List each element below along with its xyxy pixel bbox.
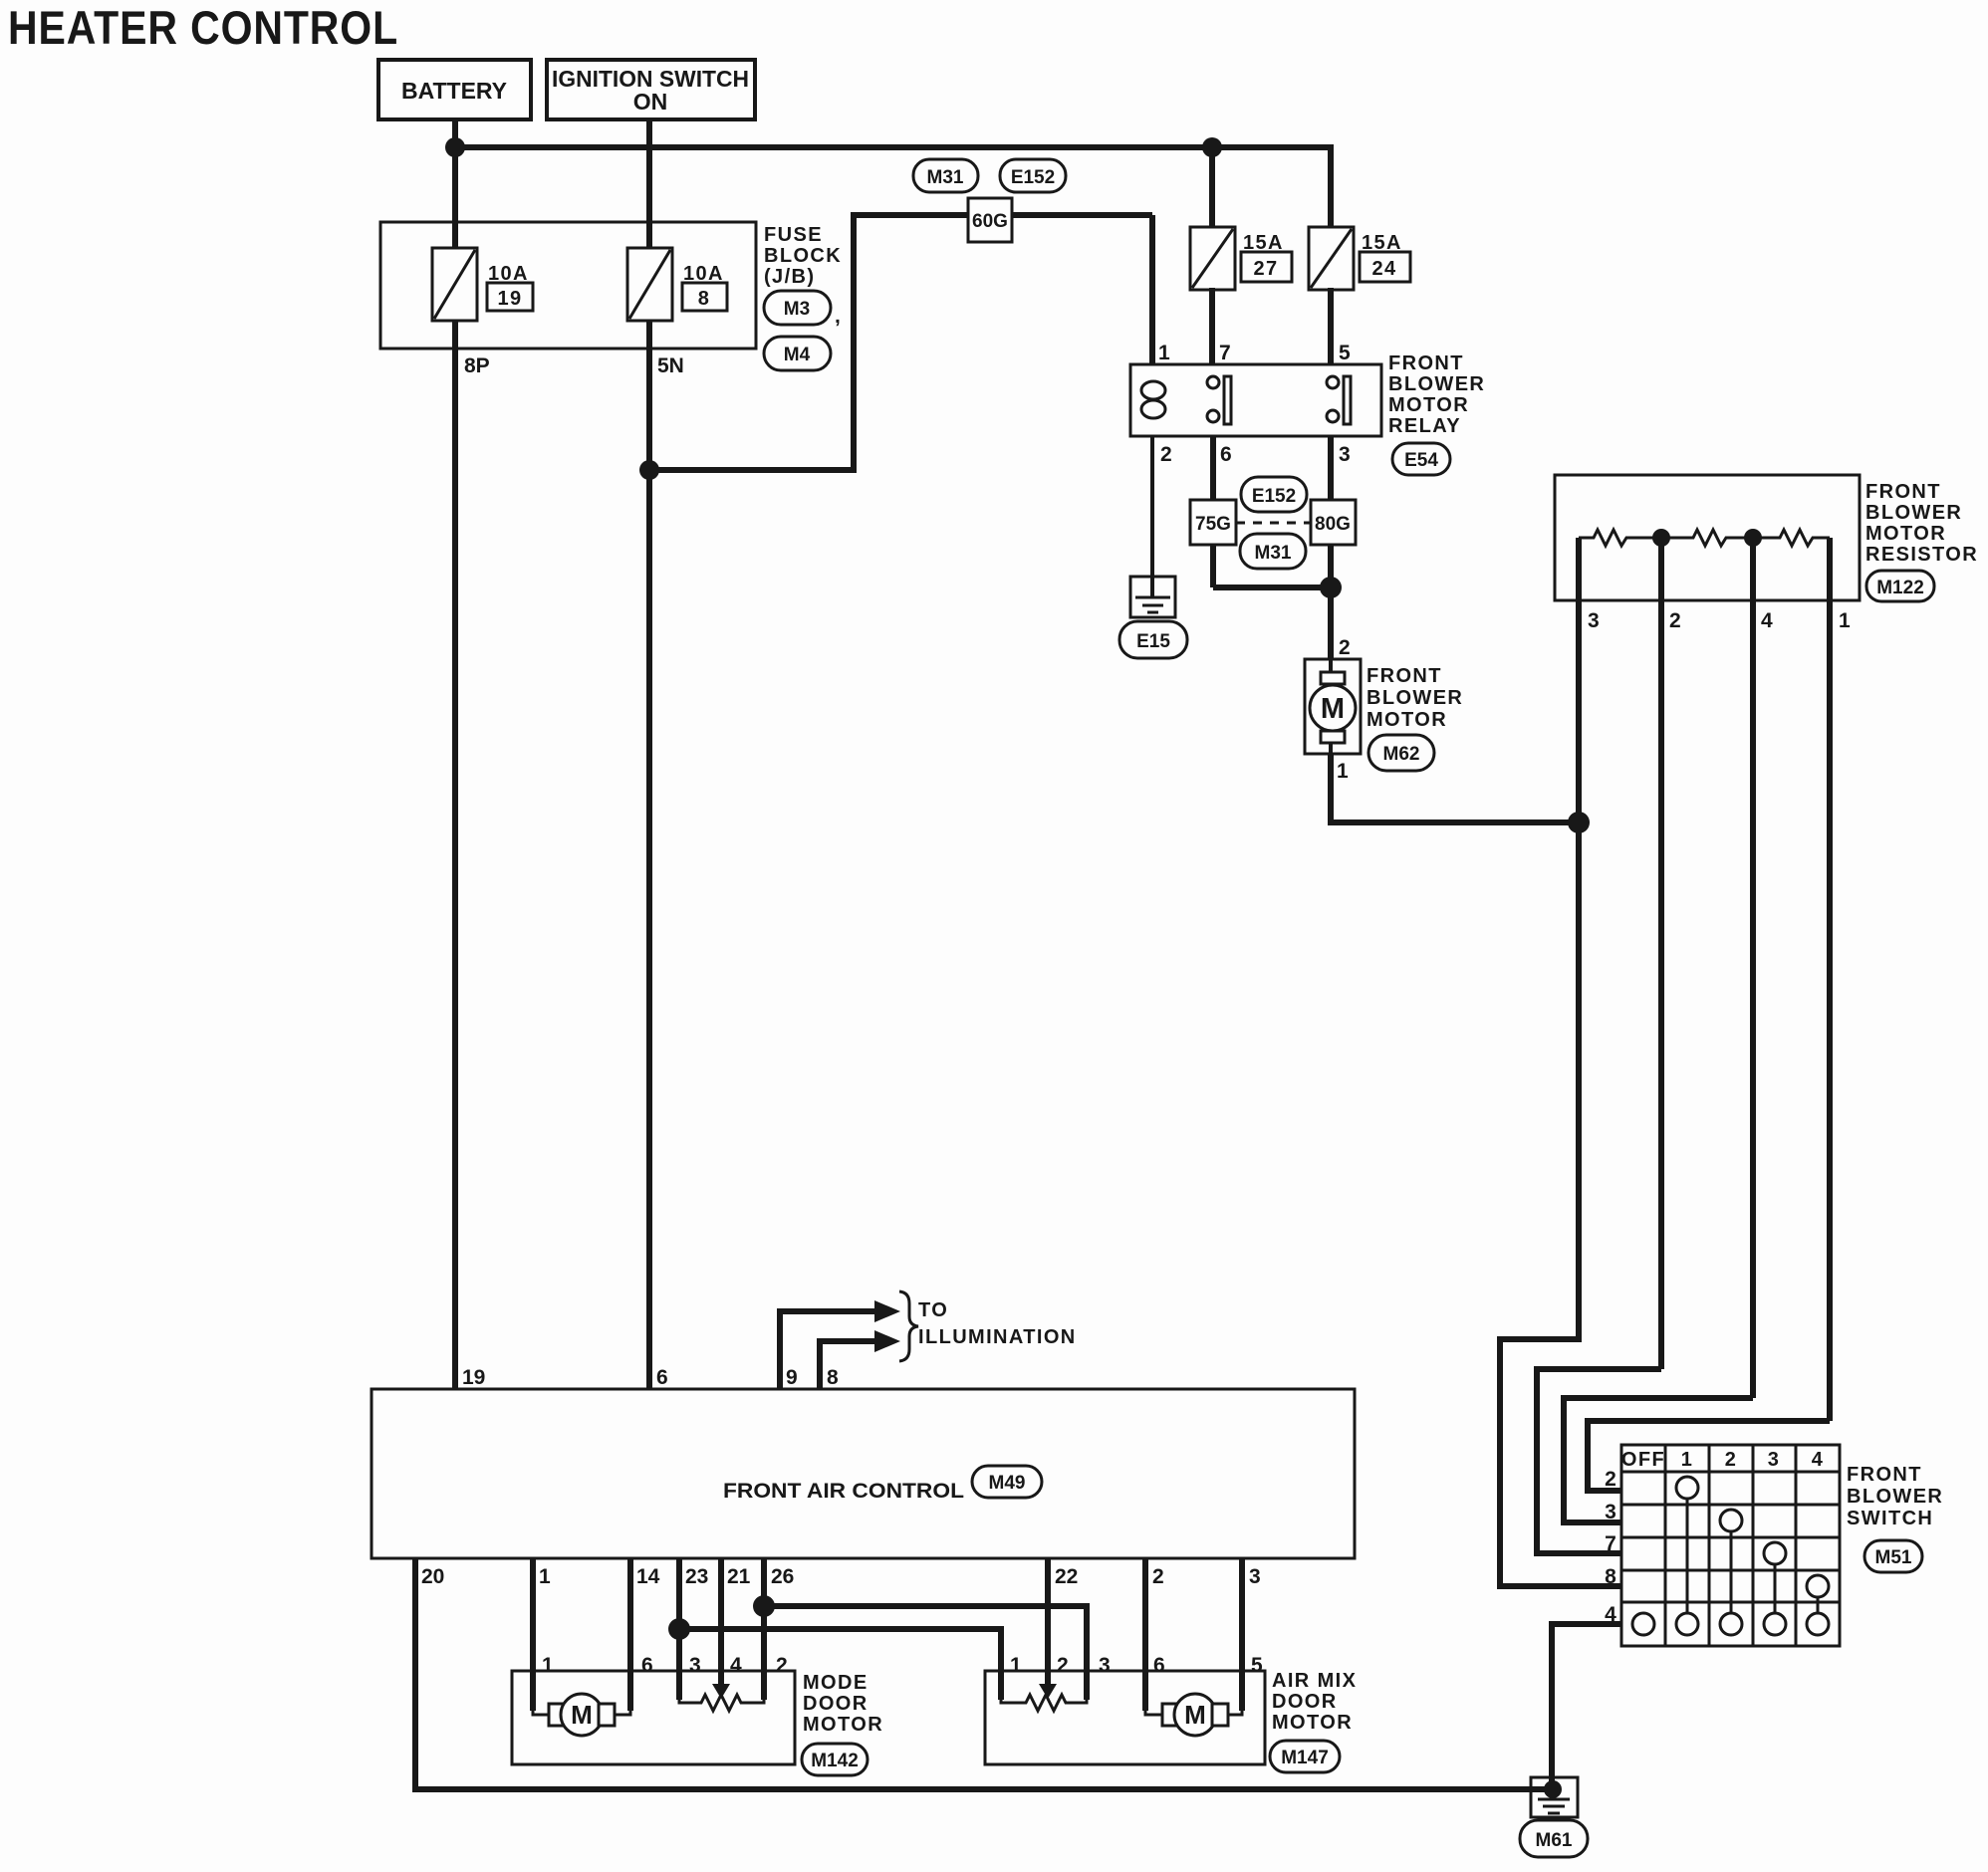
fuse block J/B box bbox=[380, 222, 756, 349]
svg-text:2: 2 bbox=[1669, 609, 1681, 632]
node junction 15A feed bbox=[1202, 137, 1222, 157]
svg-text:E15: E15 bbox=[1136, 631, 1170, 652]
svg-text:ON: ON bbox=[633, 89, 668, 115]
relay contact 5-3 bbox=[1327, 376, 1339, 388]
svg-text:M142: M142 bbox=[811, 1751, 859, 1771]
svg-text:RELAY: RELAY bbox=[1388, 415, 1461, 437]
svg-text:AIR MIX: AIR MIX bbox=[1272, 1670, 1357, 1692]
wire branch 23 to air mix pin1 bbox=[679, 1629, 1001, 1700]
wire blower motor pin1 out bbox=[1331, 754, 1579, 822]
svg-text:FRONT: FRONT bbox=[1388, 352, 1464, 374]
svg-text:4: 4 bbox=[1812, 1449, 1825, 1471]
connector E152 lower bbox=[1241, 477, 1307, 512]
connector M147 bbox=[1270, 1741, 1340, 1772]
svg-text:MOTOR: MOTOR bbox=[1388, 394, 1469, 416]
wire FAC pin9 to illumination bbox=[780, 1311, 876, 1389]
wire ignition drop 5N feed bbox=[646, 119, 652, 251]
node junction pin3/motor bbox=[1320, 577, 1342, 598]
svg-text:20: 20 bbox=[421, 1565, 444, 1588]
wire pin6 to pin3 link bbox=[1213, 585, 1331, 590]
connector E54 bbox=[1392, 443, 1450, 475]
svg-text:SWITCH: SWITCH bbox=[1847, 1508, 1933, 1529]
svg-text:,: , bbox=[835, 305, 841, 328]
svg-text:M4: M4 bbox=[784, 345, 811, 365]
svg-text:M31: M31 bbox=[1255, 543, 1292, 564]
wire FAC pin3 to air mix pin5 bbox=[1239, 1558, 1245, 1711]
wire switch pin4 to ground M61 bbox=[1552, 1624, 1621, 1782]
mode motor symbol bbox=[533, 1711, 549, 1715]
svg-text:2: 2 bbox=[1605, 1468, 1616, 1491]
wire resistor pin4 bbox=[1750, 538, 1756, 1398]
svg-text:6: 6 bbox=[641, 1654, 653, 1677]
svg-text:5: 5 bbox=[1251, 1654, 1263, 1677]
svg-text:MOTOR: MOTOR bbox=[803, 1714, 883, 1736]
svg-text:2: 2 bbox=[1339, 636, 1351, 659]
wire FAC pin23 to mode pin3 bbox=[676, 1558, 682, 1700]
ground E15 bbox=[1130, 577, 1175, 617]
svg-text:TO: TO bbox=[918, 1299, 948, 1321]
switch row4 contacts bbox=[1632, 1613, 1654, 1635]
connector M31 bbox=[913, 159, 978, 192]
svg-text:FRONT: FRONT bbox=[1367, 665, 1442, 687]
wire 60G bus to relay pin1 bbox=[851, 212, 1152, 218]
svg-text:27: 27 bbox=[1253, 258, 1278, 280]
connector M122 bbox=[1866, 571, 1934, 601]
svg-text:6: 6 bbox=[656, 1366, 668, 1389]
switch contact column 2 bbox=[1720, 1510, 1742, 1531]
svg-text:MOTOR: MOTOR bbox=[1865, 523, 1946, 545]
svg-text:ILLUMINATION: ILLUMINATION bbox=[918, 1326, 1077, 1348]
svg-text:M61: M61 bbox=[1536, 1830, 1573, 1851]
connector M31 lower bbox=[1240, 534, 1306, 569]
svg-text:1: 1 bbox=[1010, 1654, 1022, 1677]
node resistor junction 4 bbox=[1744, 529, 1762, 547]
wire ground bus from FAC pin20 bbox=[415, 1558, 1553, 1789]
arrow illumination 2 bbox=[874, 1330, 900, 1352]
brace illumination bbox=[899, 1291, 918, 1361]
fuse 15A 27 bbox=[1190, 227, 1235, 290]
svg-text:3: 3 bbox=[1099, 1654, 1111, 1677]
wire FAC pin26 to mode pin2 bbox=[761, 1558, 767, 1700]
battery box bbox=[378, 60, 531, 119]
arrow mode wiper bbox=[712, 1684, 730, 1699]
wire relay pin1 drop bbox=[1149, 215, 1155, 364]
blower switch M51 table bbox=[1621, 1445, 1840, 1646]
svg-text:1: 1 bbox=[542, 1654, 554, 1677]
svg-text:BLOWER: BLOWER bbox=[1865, 502, 1962, 524]
svg-text:FUSE: FUSE bbox=[764, 224, 823, 246]
svg-text:M3: M3 bbox=[784, 299, 810, 320]
svg-text:MOTOR: MOTOR bbox=[1367, 709, 1447, 731]
splice 60G bbox=[968, 198, 1012, 242]
wire feed to fuse 27 bbox=[1209, 147, 1215, 230]
svg-text:7: 7 bbox=[1219, 342, 1231, 364]
switch contact column 1 bbox=[1676, 1477, 1698, 1499]
svg-text:BLOCK: BLOCK bbox=[764, 245, 842, 267]
wire resistor pin2 bbox=[1658, 538, 1664, 1369]
wire resistor4 to switch pin3 staircase bbox=[1564, 1398, 1753, 1522]
wire relay pin3 drop bbox=[1328, 436, 1334, 590]
node resistor junction 2 bbox=[1652, 529, 1670, 547]
connector E152 bbox=[1000, 159, 1066, 192]
svg-text:8P: 8P bbox=[464, 354, 490, 377]
svg-text:19: 19 bbox=[497, 288, 522, 310]
svg-text:DOOR: DOOR bbox=[803, 1693, 869, 1715]
svg-text:2: 2 bbox=[776, 1654, 788, 1677]
svg-text:M147: M147 bbox=[1281, 1748, 1329, 1768]
fuse 10A 8 bbox=[627, 248, 672, 321]
wire FAC pin22 wiper bbox=[1045, 1558, 1051, 1685]
svg-text:E54: E54 bbox=[1404, 450, 1438, 471]
svg-text:6: 6 bbox=[1153, 1654, 1165, 1677]
ground M61 bbox=[1531, 1777, 1578, 1817]
relay contact 7-6 bbox=[1207, 376, 1219, 388]
wire FAC pin8 to illumination bbox=[820, 1341, 876, 1389]
air mix motor symbol bbox=[1145, 1711, 1162, 1715]
svg-text:2: 2 bbox=[1152, 1565, 1164, 1588]
svg-text:BLOWER: BLOWER bbox=[1847, 1486, 1943, 1508]
wire battery drop 8P feed bbox=[452, 119, 458, 251]
fuse 15A 24 bbox=[1309, 227, 1354, 290]
svg-text:9: 9 bbox=[786, 1366, 798, 1389]
svg-text:7: 7 bbox=[1605, 1532, 1616, 1555]
wire resistor1 to switch pin2 staircase bbox=[1588, 1421, 1830, 1491]
svg-text:MODE: MODE bbox=[803, 1672, 869, 1694]
svg-text:14: 14 bbox=[636, 1565, 660, 1588]
svg-text:FRONT: FRONT bbox=[1865, 481, 1941, 503]
arrow illumination 1 bbox=[874, 1300, 900, 1322]
svg-text:5: 5 bbox=[1339, 342, 1351, 364]
svg-text:M51: M51 bbox=[1875, 1547, 1912, 1568]
svg-text:3: 3 bbox=[689, 1654, 701, 1677]
svg-text:HEATER CONTROL: HEATER CONTROL bbox=[8, 1, 398, 54]
svg-text:FRONT: FRONT bbox=[1847, 1464, 1922, 1486]
wire top feed bus bbox=[455, 144, 1331, 150]
connector M51 bbox=[1864, 1540, 1922, 1572]
svg-text:26: 26 bbox=[771, 1565, 794, 1588]
fuse 10A 19 bbox=[432, 248, 477, 321]
svg-text:21: 21 bbox=[727, 1565, 751, 1588]
svg-text:2: 2 bbox=[1725, 1449, 1738, 1471]
wire feed to fuse 24 bbox=[1328, 144, 1334, 230]
svg-text:1: 1 bbox=[1158, 342, 1170, 364]
front air control M49 box bbox=[372, 1389, 1355, 1558]
connector M4 bbox=[764, 337, 831, 370]
connector E15 bbox=[1119, 621, 1187, 658]
svg-text:E152: E152 bbox=[1252, 486, 1296, 507]
svg-text:FRONT AIR CONTROL: FRONT AIR CONTROL bbox=[723, 1480, 964, 1503]
svg-text:OFF: OFF bbox=[1621, 1449, 1665, 1471]
connector M3 bbox=[764, 291, 831, 325]
air mix potentiometer bbox=[1001, 1695, 1087, 1711]
svg-text:5N: 5N bbox=[657, 354, 684, 377]
svg-text:1: 1 bbox=[539, 1565, 551, 1588]
wire fuse 24 to relay pin 5 bbox=[1328, 288, 1334, 364]
svg-text:E152: E152 bbox=[1011, 167, 1055, 188]
svg-text:M31: M31 bbox=[927, 167, 964, 188]
svg-text:M49: M49 bbox=[989, 1473, 1026, 1494]
switch contact column 4 bbox=[1807, 1575, 1829, 1597]
svg-text:3: 3 bbox=[1588, 609, 1600, 632]
svg-text:M122: M122 bbox=[1876, 578, 1924, 598]
svg-text:BLOWER: BLOWER bbox=[1367, 687, 1463, 709]
mode door motor M142 box bbox=[512, 1671, 795, 1764]
wire 60G branch vertical bbox=[851, 212, 857, 470]
svg-text:MOTOR: MOTOR bbox=[1272, 1712, 1353, 1734]
wire resistor pin3 bbox=[1576, 538, 1582, 822]
svg-text:24: 24 bbox=[1371, 258, 1396, 280]
air mix door motor M147 box bbox=[985, 1671, 1265, 1764]
svg-text:2: 2 bbox=[1160, 443, 1172, 466]
svg-text:3: 3 bbox=[1339, 443, 1351, 466]
mode potentiometer bbox=[679, 1695, 764, 1711]
svg-text:1: 1 bbox=[1337, 760, 1349, 783]
svg-text:8: 8 bbox=[1605, 1565, 1616, 1588]
svg-text:BATTERY: BATTERY bbox=[401, 78, 507, 104]
wire fuse 27 to relay pin 7 bbox=[1209, 288, 1215, 364]
splice 80G bbox=[1311, 500, 1356, 545]
wire 60G branch horizontal low bbox=[649, 467, 857, 473]
wire FAC pin1 to mode motor bbox=[530, 1558, 536, 1711]
connector M61 bbox=[1520, 1820, 1588, 1857]
svg-text:(J/B): (J/B) bbox=[764, 266, 815, 288]
connector M142 bbox=[802, 1744, 868, 1775]
resistor element chain bbox=[1579, 530, 1661, 546]
splice 75G bbox=[1190, 500, 1236, 545]
svg-text:M62: M62 bbox=[1383, 744, 1420, 765]
wire FAC pin2 to air mix pin6 bbox=[1142, 1558, 1148, 1711]
svg-text:6: 6 bbox=[1220, 443, 1232, 466]
svg-text:3: 3 bbox=[1605, 1501, 1616, 1523]
switch contact column 3 bbox=[1764, 1542, 1786, 1564]
relay coil bbox=[1141, 381, 1165, 399]
connector M62 bbox=[1368, 735, 1434, 771]
dashed link 75G-80G bbox=[1236, 522, 1311, 525]
wire FAC pin14 to mode pin6 bbox=[627, 1558, 633, 1711]
svg-text:BLOWER: BLOWER bbox=[1388, 373, 1485, 395]
svg-text:8: 8 bbox=[698, 288, 711, 310]
svg-text:19: 19 bbox=[462, 1366, 485, 1389]
arrow air mix wiper bbox=[1039, 1684, 1057, 1699]
relay E54 box bbox=[1130, 364, 1381, 436]
wire relay pin6 drop bbox=[1210, 436, 1216, 587]
wire resistor3 to switch pin8 staircase bbox=[1500, 822, 1621, 1586]
ignition switch box bbox=[547, 60, 755, 119]
svg-text:8: 8 bbox=[827, 1366, 839, 1389]
wire relay pin2 to ground bbox=[1150, 436, 1154, 597]
svg-text:23: 23 bbox=[685, 1565, 708, 1588]
svg-text:3: 3 bbox=[1249, 1565, 1261, 1588]
svg-text:22: 22 bbox=[1055, 1565, 1078, 1588]
wire 8P below fuse to FAC pin 19 bbox=[452, 319, 458, 1389]
node junction 5N / 60G bbox=[639, 460, 659, 480]
node junction pin26 branch bbox=[753, 1595, 775, 1617]
node junction pin23 branch bbox=[668, 1618, 690, 1640]
svg-text:1: 1 bbox=[1839, 609, 1851, 632]
svg-text:75G: 75G bbox=[1195, 514, 1231, 535]
svg-text:4: 4 bbox=[1761, 609, 1773, 632]
svg-text:60G: 60G bbox=[972, 211, 1008, 232]
node junction motor/resistor3 bbox=[1568, 812, 1590, 833]
svg-text:1: 1 bbox=[1681, 1449, 1694, 1471]
svg-text:80G: 80G bbox=[1315, 514, 1351, 535]
svg-text:M: M bbox=[1321, 693, 1345, 725]
resistor box M122 bbox=[1555, 475, 1860, 600]
svg-text:4: 4 bbox=[730, 1654, 742, 1677]
svg-text:3: 3 bbox=[1768, 1449, 1781, 1471]
wire 5N below fuse to FAC pin 6 bbox=[646, 319, 652, 1389]
svg-text:2: 2 bbox=[1057, 1654, 1069, 1677]
connector M49 bbox=[972, 1466, 1042, 1498]
svg-text:M: M bbox=[571, 1700, 593, 1730]
svg-text:DOOR: DOOR bbox=[1272, 1691, 1338, 1713]
node junction battery feed bbox=[445, 137, 465, 157]
blower motor M62 box bbox=[1305, 659, 1361, 754]
svg-text:M: M bbox=[1184, 1700, 1206, 1730]
wire branch 26 to air mix pin3 bbox=[764, 1606, 1087, 1700]
wire FAC pin21 wiper bbox=[718, 1558, 724, 1685]
wire resistor2 to switch pin7 staircase bbox=[1537, 1369, 1661, 1553]
svg-text:RESISTOR: RESISTOR bbox=[1865, 544, 1978, 566]
wire to blower motor pin2 bbox=[1328, 587, 1334, 659]
wire resistor pin1 bbox=[1827, 538, 1833, 1421]
